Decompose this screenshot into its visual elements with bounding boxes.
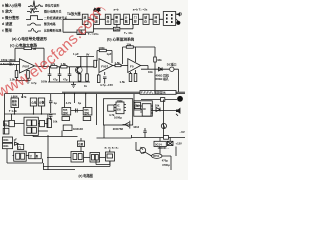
transistor QE3 — [161, 123, 166, 128]
svg-text:10k: 10k — [155, 103, 160, 107]
node junctions — [64, 93, 65, 94]
svg-text:数: 数 — [35, 154, 39, 158]
block box display — [163, 12, 175, 26]
node label F rail — [140, 91, 176, 95]
svg-text:+12V: +12V — [176, 141, 183, 145]
capacitor CE9 — [143, 128, 146, 138]
wire ground rail — [48, 81, 90, 83]
block box E39b — [95, 155, 98, 161]
block box E33 — [18, 145, 24, 150]
svg-text:1N4001→: 1N4001→ — [158, 146, 170, 150]
svg-text:比较整形电路: 比较整形电路 — [44, 28, 61, 33]
block box E37 — [78, 141, 85, 147]
capacitor C4 — [103, 77, 107, 84]
svg-text:a₁ a₂ a₃ a₄: a₁ a₂ a₃ a₄ — [105, 146, 120, 150]
block box E35 — [29, 153, 35, 159]
wire E mid vertical — [96, 94, 98, 125]
transistor QE1 — [123, 121, 130, 129]
resistor R11 — [97, 75, 100, 83]
resistor Rf2 100k — [99, 49, 106, 51]
svg-text:4.7k: 4.7k — [66, 101, 72, 105]
block box E6 — [27, 120, 32, 126]
wire E44 links — [96, 150, 110, 165]
block box B2 filter — [94, 14, 100, 24]
wire E verticals — [65, 94, 86, 108]
svg-text:1μF: 1μF — [107, 52, 112, 56]
svg-text:a=b: a=b — [114, 8, 119, 12]
svg-text:F0: F0 — [130, 65, 134, 69]
IC box E39 — [90, 153, 100, 163]
svg-text:存: 存 — [144, 20, 147, 24]
wire waveform b — [27, 9, 39, 13]
svg-text:→6V: →6V — [179, 130, 185, 134]
svg-text:计数: 计数 — [39, 101, 45, 105]
svg-text:4B: 4B — [136, 105, 139, 108]
watermark www.elecfans.com — [0, 8, 107, 97]
block box B6 gate — [133, 14, 139, 24]
wire E bottom right rail — [132, 137, 186, 139]
wire E speaker link — [151, 100, 176, 138]
op-amp U1 F007 — [20, 59, 35, 73]
block box E38a — [73, 154, 77, 160]
capacitor C3 — [68, 67, 72, 82]
speaker SP1 — [176, 12, 180, 17]
svg-text:原信号波形: 原信号波形 — [45, 2, 60, 7]
svg-text:F007: F007 — [101, 65, 108, 69]
block box B1 amplifier — [82, 14, 88, 24]
wire U3 out to jack — [141, 66, 169, 70]
wire inputs — [0, 62, 20, 65]
svg-text:4.7μ −15V: 4.7μ −15V — [100, 83, 113, 87]
svg-text:位驱: 位驱 — [78, 142, 83, 146]
speaker SP2 — [176, 108, 180, 115]
block box REG — [154, 141, 166, 146]
svg-text:555: 555 — [117, 109, 122, 112]
lamp DS1 — [176, 21, 180, 25]
block box E24c — [135, 102, 141, 108]
svg-text:1000μ: 1000μ — [114, 116, 122, 120]
wire waveform d — [27, 23, 41, 25]
svg-text:100k: 100k — [117, 99, 124, 103]
block box B7 latch — [143, 14, 149, 24]
wire E mid row — [141, 99, 177, 101]
resistor R4 — [27, 71, 30, 79]
wire E bottomleft — [7, 149, 43, 163]
ground GND1 — [26, 81, 31, 84]
svg-text:数: 数 — [124, 20, 128, 24]
wire fb2 — [123, 47, 156, 64]
svg-text:心电: 心电 — [31, 101, 37, 105]
resistor R12 — [129, 74, 132, 82]
svg-text:(c) 心电放大电路: (c) 心电放大电路 — [10, 42, 37, 47]
op-amp U3 — [128, 59, 141, 73]
svg-text:5G14: 5G14 — [155, 142, 162, 146]
svg-text:(e) 电路图: (e) 电路图 — [79, 173, 93, 178]
wire U2 out — [113, 65, 128, 67]
svg-text:(b) 心率监测系统: (b) 心率监测系统 — [107, 36, 135, 41]
wire branch vertical — [154, 47, 156, 92]
block box timer3 — [113, 27, 119, 31]
wire REG links — [160, 138, 170, 154]
block box B8 decoder — [153, 14, 159, 24]
svg-text:1k: 1k — [84, 84, 87, 88]
wire E left drop — [5, 94, 42, 134]
wire E right verticals — [104, 94, 142, 138]
svg-text:(a) 心电信号处理波形: (a) 心电信号处理波形 — [12, 36, 47, 41]
svg-text:TA放大器: TA放大器 — [67, 11, 81, 16]
diode DE1 — [156, 108, 160, 112]
svg-text:b 放大: b 放大 — [2, 9, 13, 14]
block box E15 — [83, 117, 91, 121]
svg-text:计: 计 — [30, 154, 33, 158]
resistor Rf3 10k — [126, 46, 133, 48]
block box B3 differentiator — [105, 14, 111, 24]
block box E24b container — [134, 101, 153, 116]
wire waveform e — [28, 29, 41, 33]
wire to ground — [17, 78, 29, 81]
svg-text:T₃ =8s: T₃ =8s — [124, 31, 133, 35]
wire output U1 — [35, 65, 51, 68]
resistor R13 — [134, 74, 137, 82]
wire E bottom center — [97, 135, 132, 138]
svg-text:定时: 定时 — [83, 111, 89, 115]
wire top rail — [77, 56, 94, 58]
svg-text:1μ: 1μ — [54, 101, 58, 105]
svg-text:600Ω 插孔: 600Ω 插孔 — [156, 77, 169, 81]
capacitor CE1 — [49, 94, 53, 120]
block box E1 — [11, 98, 19, 108]
svg-text:4011: 4011 — [3, 138, 9, 142]
wire E37 drop — [80, 138, 82, 152]
svg-text:1.6k: 1.6k — [61, 62, 67, 66]
svg-text:2CD768: 2CD768 — [113, 127, 124, 131]
fuse FE1 — [161, 98, 165, 102]
svg-text:T 1.8k: T 1.8k — [9, 109, 17, 113]
block box E32 — [3, 143, 13, 149]
resistor R8 — [86, 74, 89, 81]
svg-text:定时: 定时 — [62, 111, 68, 115]
svg-text:电路: 电路 — [12, 103, 18, 107]
lamp DS2 — [177, 96, 183, 102]
wire E bottom rails — [43, 135, 110, 170]
svg-text:100k: 100k — [99, 46, 106, 50]
svg-text:晶振: 晶振 — [12, 99, 18, 103]
resistor RE16 — [47, 119, 52, 128]
block box E3 — [38, 98, 44, 106]
block box E10b — [3, 128, 9, 134]
transistor Q1 — [75, 57, 81, 83]
svg-text:BY01: BY01 — [153, 155, 160, 158]
resistor Rf1 1M — [24, 47, 32, 50]
wire ECG waveform a — [28, 1, 43, 9]
resistor R3 — [15, 71, 18, 78]
svg-text:470μ: 470μ — [162, 158, 168, 162]
diode DE2 — [15, 142, 19, 145]
wire bias legs — [17, 65, 29, 71]
svg-text:9V: 9V — [86, 53, 90, 57]
block box E8 — [27, 128, 32, 134]
wire bias U2 — [99, 72, 105, 75]
block box E19b container — [24, 117, 38, 135]
block box E39a — [92, 155, 95, 161]
capacitor C2 — [58, 67, 62, 82]
block box E2 — [30, 98, 36, 106]
svg-text:F₁F₂F₃F₄ 笔段显示: F₁F₂F₃F₄ 笔段显示 — [141, 90, 166, 95]
block box E11b — [40, 120, 45, 126]
resistor R10 1.5k — [115, 64, 121, 66]
svg-text:4011: 4011 — [3, 144, 9, 148]
ground GND2 — [71, 85, 76, 88]
wire red arc — [96, 7, 106, 10]
wire fb1 — [97, 51, 112, 64]
svg-text:1.7k: 1.7k — [21, 95, 27, 99]
block box E17 — [63, 125, 72, 131]
block box E31 — [3, 137, 13, 143]
block box E36 — [35, 153, 41, 159]
IC box E20 — [116, 102, 124, 114]
connector J1 — [170, 67, 174, 71]
svg-text:控: 控 — [134, 20, 137, 24]
wire main — [50, 66, 94, 68]
wire E cluster links — [14, 114, 48, 131]
svg-text:9013: 9013 — [134, 126, 140, 129]
svg-text:d 滤波: d 滤波 — [2, 21, 13, 26]
svg-text:1μ: 1μ — [78, 101, 82, 105]
svg-text:微分电路开关: 微分电路开关 — [43, 9, 61, 14]
svg-text:10k: 10k — [148, 70, 153, 74]
battery BT1 oval — [152, 154, 162, 159]
IC box E25 — [142, 104, 151, 117]
block box E34a — [16, 153, 20, 159]
svg-text:μF: μF — [14, 138, 18, 142]
block box E38b — [78, 154, 82, 160]
svg-text:定时: 定时 — [113, 27, 120, 31]
wire IC link — [71, 109, 84, 113]
svg-text:10k: 10k — [127, 42, 132, 46]
block box E19 container — [104, 99, 133, 125]
svg-text:a 输入y信号: a 输入y信号 — [2, 3, 22, 8]
block box E7 — [32, 120, 37, 126]
block box B5 counter — [124, 14, 130, 24]
block box E10 — [9, 120, 15, 126]
svg-text:码: 码 — [154, 20, 157, 24]
svg-text:1.5k: 1.5k — [115, 61, 121, 65]
resistor R9 input — [94, 60, 97, 67]
svg-text:e 整形: e 整形 — [2, 28, 13, 33]
block box E34b — [21, 153, 25, 159]
svg-text:分: 分 — [107, 20, 110, 24]
capacitor C1 — [48, 67, 52, 82]
resistor R6 — [61, 66, 67, 68]
svg-text:1 μF: 1 μF — [73, 52, 79, 56]
svg-text:1.5k: 1.5k — [120, 80, 126, 84]
svg-text:整流电路: 整流电路 — [44, 21, 56, 26]
IC box E38 — [71, 152, 84, 163]
block box E44a — [107, 154, 113, 158]
IC box E13 — [83, 108, 92, 116]
svg-text:43k: 43k — [157, 58, 162, 62]
svg-text:1k: 1k — [4, 122, 7, 126]
block box monostable — [77, 30, 86, 35]
wire E pwr — [145, 147, 176, 171]
diode D1 zener — [154, 57, 157, 62]
IC box E12 — [62, 108, 71, 116]
svg-text:4700μ: 4700μ — [162, 163, 170, 167]
svg-text:47μ: 47μ — [53, 78, 58, 82]
diode D2 — [159, 67, 163, 71]
svg-text:DC插口: DC插口 — [167, 63, 177, 67]
block box B4 shaper — [114, 14, 120, 24]
svg-text:a=b T₂ =2s: a=b T₂ =2s — [133, 8, 148, 12]
wire waveform c — [26, 16, 43, 20]
wire E cross link — [12, 114, 78, 137]
svg-text:门: 门 — [18, 145, 21, 149]
wire main row — [63, 19, 176, 32]
resistor RE1 — [4, 121, 9, 126]
svg-text:IC: IC — [143, 107, 146, 111]
svg-text:Q S T: Q S T — [30, 7, 38, 11]
svg-text:100k: 100k — [41, 80, 48, 84]
op-amp U2 F007 — [99, 59, 113, 73]
svg-text:形: 形 — [115, 20, 118, 24]
block box E34 — [14, 151, 27, 161]
block box E14 — [62, 117, 70, 121]
wire E bus — [5, 113, 57, 115]
block box E44 — [106, 152, 115, 161]
block box bridge — [167, 141, 173, 145]
wire feedback lower — [85, 24, 133, 32]
svg-text:1N4148: 1N4148 — [73, 127, 83, 131]
fuse FE2 — [164, 136, 169, 140]
wire top rail E — [5, 92, 186, 93]
svg-text:c 微分整形: c 微分整形 — [2, 15, 20, 20]
svg-text:10k: 10k — [53, 120, 58, 124]
resistor R7 — [78, 74, 81, 81]
resistor R5 — [51, 66, 57, 68]
transistor QE2 — [140, 147, 146, 153]
block box E9 — [32, 128, 37, 134]
svg-text:1M: 1M — [33, 47, 37, 51]
svg-text:47μ: 47μ — [63, 78, 68, 82]
svg-text:IC: IC — [117, 104, 120, 108]
block box E21 — [108, 105, 114, 111]
wire feedback top — [15, 48, 44, 66]
